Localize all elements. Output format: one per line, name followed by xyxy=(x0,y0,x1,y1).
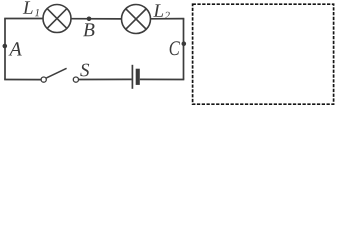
wire: lamp L2 to top-right corner xyxy=(151,18,185,20)
node A junction dot xyxy=(3,44,8,49)
label A xyxy=(8,42,21,55)
label C xyxy=(170,41,180,55)
wire: segment lamp L1 to lamp L2 xyxy=(71,18,122,20)
wire: battery to bottom-right corner xyxy=(140,78,185,80)
lamp L2 xyxy=(122,5,151,34)
battery cell: long thin plate xyxy=(131,65,133,89)
wire: switch to battery xyxy=(79,78,132,80)
label B xyxy=(83,23,94,36)
label L1 xyxy=(23,1,39,16)
node B junction dot xyxy=(87,17,92,22)
wire: top-left segment to lamp L1 xyxy=(4,18,43,20)
label S xyxy=(80,64,89,77)
label L2 xyxy=(153,4,169,19)
wire: bottom-left segment to switch xyxy=(4,79,41,81)
wire: left vertical side xyxy=(4,19,6,80)
node C junction dot xyxy=(182,41,187,46)
dashed box (answer area) xyxy=(193,4,334,104)
switch S xyxy=(41,68,78,82)
lamp L1 xyxy=(43,5,71,33)
battery cell: short thick plate xyxy=(136,69,140,85)
wire: right vertical side xyxy=(183,19,185,80)
